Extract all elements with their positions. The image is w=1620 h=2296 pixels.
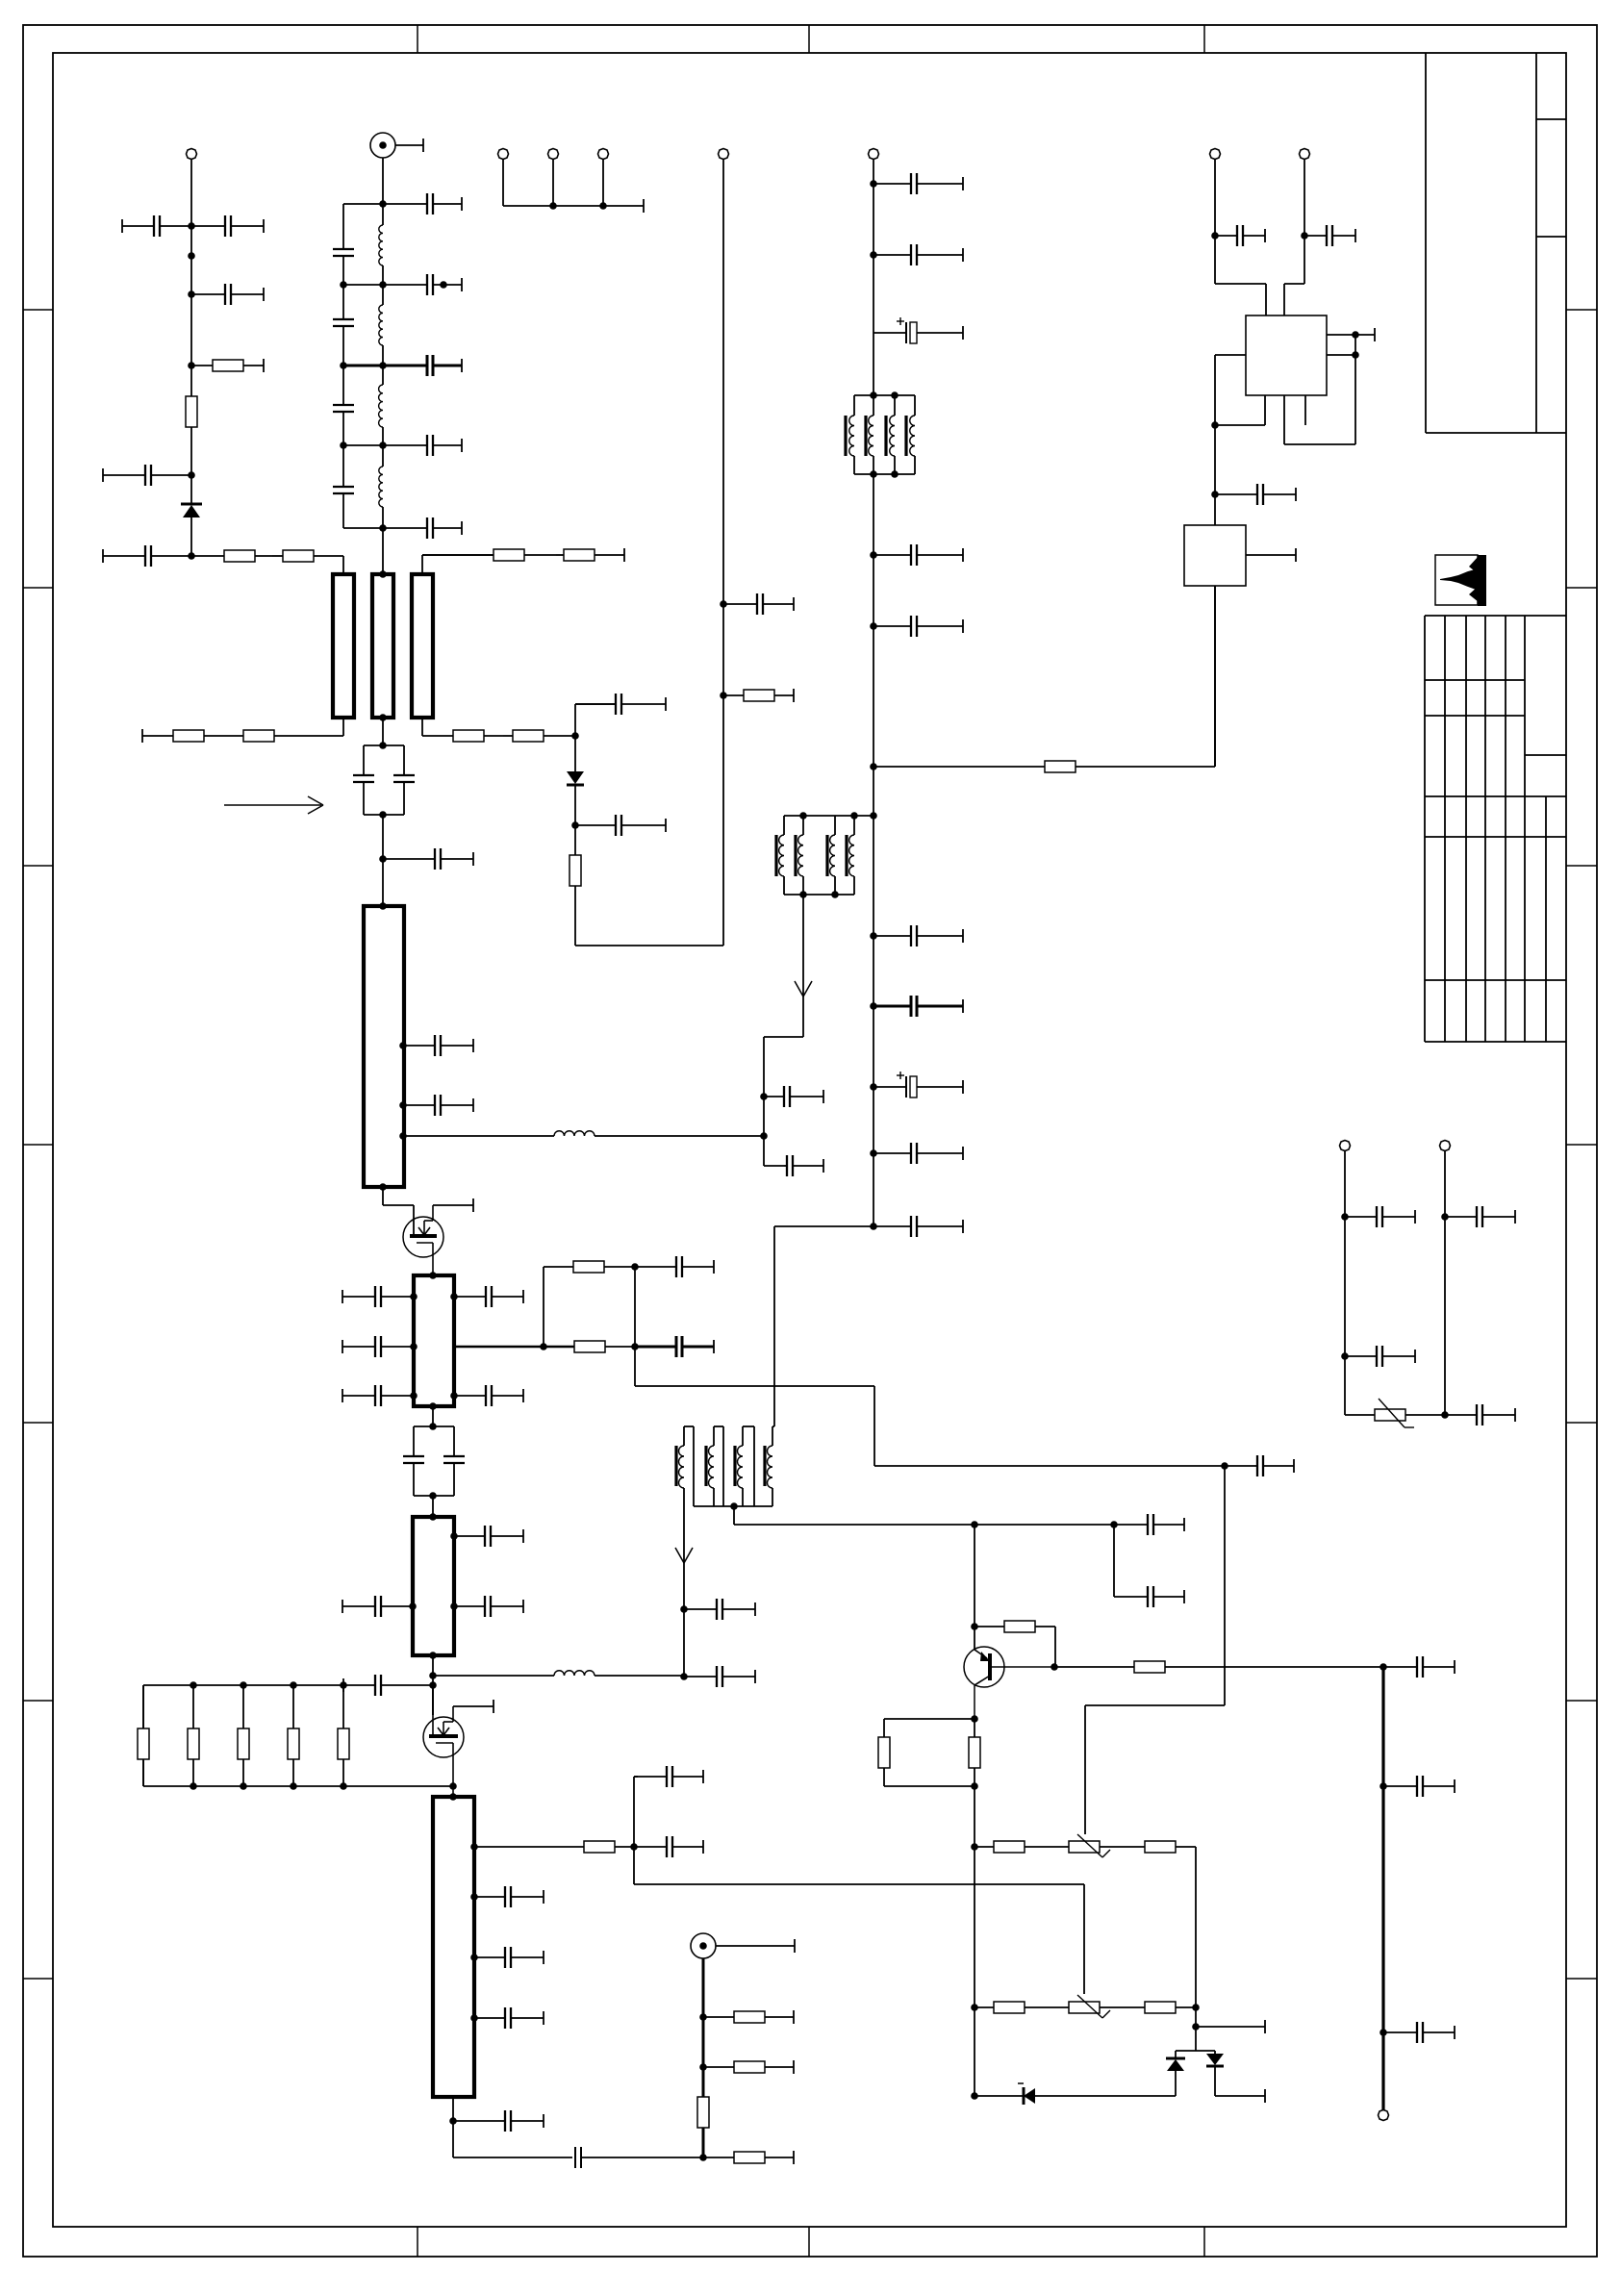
node A1b (188, 252, 195, 260)
wire (774, 1225, 873, 1227)
node E1 (720, 600, 727, 608)
capacitor C33 (454, 1385, 523, 1406)
capacitor C55 (1345, 1206, 1415, 1227)
wire (421, 555, 423, 574)
resistor R22 (703, 2010, 794, 2024)
node F2bot (379, 714, 387, 721)
wire (452, 2097, 454, 2157)
RF connector J1 (370, 133, 423, 158)
wire (633, 1847, 635, 1884)
capacitor C2 (191, 215, 264, 237)
resistor R23 (703, 2060, 794, 2074)
node X1 (1380, 1663, 1387, 1671)
arrow (signal direction) (224, 796, 323, 814)
wire (1195, 1847, 1197, 2007)
node H2 (760, 1132, 768, 1140)
terminal P5 (598, 149, 609, 160)
wire (343, 203, 383, 205)
terminal P2 (719, 149, 729, 160)
node A4 (188, 471, 195, 479)
node V2 (1110, 1521, 1118, 1528)
capacitor C34 (635, 1336, 714, 1357)
wire (1214, 159, 1216, 284)
capacitor C52 (1383, 1656, 1455, 1678)
wire (634, 1267, 636, 1347)
wire (635, 1347, 1225, 1466)
node I5 (399, 1132, 407, 1140)
capacitor C36 (1225, 1455, 1294, 1476)
transformer T3 (676, 1426, 774, 1510)
resistor R29 (969, 1719, 980, 2096)
node S4 (449, 2117, 457, 2125)
node A3 (188, 362, 195, 369)
capacitor C32 (454, 1286, 523, 1307)
node A2 (188, 290, 195, 298)
node B3 (340, 362, 347, 369)
wire (190, 159, 192, 226)
node V6 (971, 1782, 978, 1790)
diode D3 (975, 2083, 1176, 2105)
wire: resistor bank bottom rail (143, 1759, 453, 1786)
node K11 (429, 1402, 437, 1410)
capacitor C31 (342, 1385, 414, 1406)
resonator F6 (413, 1517, 454, 1655)
capacitor C38 (342, 1596, 413, 1617)
node G5 (870, 763, 877, 770)
inductor L2b (379, 366, 383, 445)
wire (1215, 2095, 1265, 2097)
node U2n (680, 1673, 688, 1680)
wire (453, 1705, 494, 1707)
node R21a (470, 1843, 478, 1851)
capacitor C3 (191, 284, 264, 305)
resistor R3 (191, 550, 272, 562)
node S2 (470, 1954, 478, 1961)
resonator F5 (414, 1275, 454, 1406)
node G3 (870, 551, 877, 559)
capacitor C42 (634, 1766, 703, 1787)
node V1 (971, 1521, 978, 1528)
node A5 (188, 552, 195, 560)
inductor L2 (379, 285, 383, 366)
capacitor C8 (333, 319, 354, 326)
terminal P9 (1440, 1141, 1451, 1151)
capacitor C4 (103, 465, 191, 486)
transformer T1 (776, 812, 873, 898)
capacitor C25 (784, 1155, 823, 1176)
node V3 (971, 1623, 978, 1630)
wire (543, 1267, 544, 1347)
capacitor C27 (403, 1035, 473, 1056)
MOSFET Q2 (423, 1685, 464, 1797)
node V5 (971, 1715, 978, 1723)
resistor R13 (873, 761, 1215, 772)
capacitor C1 (122, 215, 191, 237)
node M4 (450, 1602, 458, 1610)
wire (574, 704, 576, 736)
resistor R15 (573, 1261, 635, 1273)
resistor R10 (503, 730, 575, 742)
capacitor C50 (1114, 1514, 1184, 1535)
node K4 (410, 1392, 418, 1400)
resonator F2 (372, 574, 393, 718)
varistor RV3 (1345, 1399, 1445, 1427)
inductor L3 (403, 1131, 764, 1136)
capacitor C29 (342, 1286, 414, 1307)
capacitor C24 (764, 1086, 823, 1107)
inductor L1 (379, 204, 383, 285)
node G1 (870, 180, 877, 188)
wire (873, 159, 874, 395)
capacitor C41 (634, 1836, 703, 1857)
resistor R30 (975, 1841, 1069, 1853)
node M1 (429, 1513, 437, 1521)
wire (575, 945, 723, 946)
resistor R26 (975, 1621, 1055, 1632)
capacitor C53 (1383, 1776, 1455, 1797)
capacitor C48 (684, 1599, 755, 1620)
node I1 (379, 855, 387, 863)
capacitor C37 (454, 1526, 523, 1547)
node K9 (631, 1263, 639, 1271)
diode D4 (1166, 2051, 1185, 2096)
inductor L4 (433, 1671, 684, 1676)
resistor R12 (723, 689, 794, 702)
node Z2 (1301, 232, 1308, 240)
resistor R11 (570, 825, 581, 946)
wire (382, 815, 384, 906)
capacitor C11 (575, 694, 666, 715)
node N6 (240, 1782, 247, 1790)
node Y2n (1441, 1213, 1449, 1221)
capacitor C6 (383, 193, 462, 214)
node K3 (410, 1343, 418, 1350)
wire (342, 718, 344, 736)
node G8 (870, 1002, 877, 1010)
wire (1354, 335, 1356, 444)
terminal P11 (1300, 149, 1310, 160)
node R21b (630, 1843, 638, 1851)
capacitor C23 (873, 1216, 963, 1237)
wire (343, 284, 383, 286)
node T3n (699, 2154, 707, 2161)
wire (764, 895, 812, 1166)
terminal P4 (548, 149, 559, 160)
node D2b (571, 821, 579, 829)
node V4 (1050, 1663, 1058, 1671)
node N1 (190, 1681, 197, 1689)
capacitor C49 (684, 1666, 755, 1687)
capacitor C13 (723, 593, 794, 615)
node Y3n (1341, 1352, 1349, 1360)
diode D2 (567, 736, 584, 825)
node K8 (631, 1343, 639, 1350)
node M5 (429, 1652, 437, 1659)
capacitor C10 (383, 355, 462, 376)
resistor R18 (238, 1685, 249, 1786)
resistor R25 (703, 2151, 794, 2164)
capacitor C21 electrolytic (873, 1072, 963, 1098)
node K1 (429, 1272, 437, 1279)
node S1 (470, 1893, 478, 1901)
wire (1196, 2026, 1265, 2028)
wire: ladder left branch (343, 204, 383, 528)
capacitor C30 (342, 1336, 414, 1357)
node N5 (190, 1782, 197, 1790)
node X3 (1380, 2029, 1387, 2036)
wire (552, 159, 554, 206)
node G11 (870, 1223, 877, 1230)
wire: U1 pin (1327, 334, 1375, 336)
wire (190, 226, 192, 294)
node F2top (379, 570, 387, 578)
capacitor C15 (873, 244, 963, 265)
wire (873, 474, 874, 1226)
transformer T2 (846, 391, 915, 478)
capacitor C16 electrolytic (873, 317, 963, 343)
wire (421, 718, 423, 736)
MOSFET Q1 (403, 1205, 443, 1275)
resistor R31 (1145, 1841, 1196, 1853)
capacitor C61 (1215, 484, 1296, 505)
node B4 (340, 442, 347, 449)
terminal P8 (1340, 1141, 1351, 1151)
resistor R21 (474, 1841, 634, 1853)
resistor R7 (223, 730, 343, 742)
capacitor C28 (403, 1095, 473, 1116)
wire (1176, 2050, 1215, 2052)
node S3 (470, 2014, 478, 2022)
terminal P1 (187, 149, 197, 160)
wire (1224, 1466, 1226, 1705)
capacitor C14 (873, 173, 963, 194)
wire (382, 1187, 384, 1205)
wire (733, 1506, 735, 1525)
wire (190, 294, 192, 366)
node B2 (340, 281, 347, 289)
node K2 (410, 1293, 418, 1300)
resistor R9 (422, 730, 503, 742)
IC U1 (1246, 315, 1327, 395)
capacitor C26 (383, 848, 473, 870)
node M6 (429, 1672, 437, 1679)
potentiometer RV1 (1069, 1834, 1145, 1857)
node U1n (680, 1605, 688, 1613)
node N8 (340, 1782, 347, 1790)
resistor R32 (975, 2002, 1069, 2013)
node N4 (340, 1681, 347, 1689)
resonator F3 (412, 574, 433, 718)
resistor R27 (1054, 1661, 1383, 1673)
node Y1n (1341, 1213, 1349, 1221)
resistor R24 (697, 2097, 709, 2128)
terminal P6 (869, 149, 879, 160)
resonator F1 (333, 574, 354, 718)
wire (764, 1165, 784, 1167)
capacitor C39 (454, 1596, 523, 1617)
node G4 (870, 622, 877, 630)
wire (1304, 159, 1305, 284)
capacitor C54 (1383, 2022, 1455, 2043)
capacitor C60 (1304, 225, 1355, 246)
capacitor C46 (453, 2110, 544, 2132)
resistor R14 (574, 1341, 635, 1352)
terminal P3 (498, 149, 509, 160)
wire (1195, 2007, 1197, 2051)
capacitor C5 (103, 545, 191, 567)
capacitor C22 (873, 1143, 963, 1164)
node Z1 (1211, 232, 1219, 240)
resistor R1 (191, 359, 264, 372)
node Q1t (449, 1793, 457, 1801)
terminal P10 (1210, 149, 1221, 160)
node Y4n (1441, 1411, 1449, 1419)
node I3 (399, 1042, 407, 1049)
BJT Q3 (964, 1647, 1054, 1719)
trimmer capacitor CT2 (403, 1423, 465, 1500)
capacitor C59 (1215, 225, 1265, 246)
wire (1215, 424, 1265, 426)
node K6 (450, 1392, 458, 1400)
node W1 (971, 1843, 978, 1851)
wire (382, 158, 384, 204)
node W4 (1192, 2023, 1200, 2031)
capacitor C8a (383, 274, 462, 295)
capacitor C17 (873, 544, 963, 566)
wire (633, 1777, 635, 1847)
wire (1214, 586, 1216, 767)
resistor R4 (272, 550, 343, 562)
node N3 (290, 1681, 297, 1689)
wire (432, 1406, 434, 1426)
resonator F4 (364, 906, 404, 1187)
wire (675, 1488, 693, 1677)
node E2 (720, 692, 727, 699)
capacitor C51 (1114, 1586, 1184, 1607)
capacitor C10a (383, 435, 462, 456)
node B5 (379, 524, 387, 532)
resistor R17 (188, 1685, 199, 1786)
capacitor C10b (383, 517, 462, 539)
wire (382, 718, 384, 745)
node N2 (240, 1681, 247, 1689)
wire (454, 1346, 574, 1349)
crystal Y1 (1184, 525, 1246, 586)
node W2 (971, 2004, 978, 2011)
diode D5 (1206, 2051, 1224, 2096)
capacitor C20 (873, 996, 963, 1017)
wire (1214, 586, 1216, 767)
node K7 (540, 1343, 547, 1350)
node W3 (1192, 2004, 1200, 2011)
node I2 (379, 902, 387, 910)
resistor R8 (142, 729, 223, 743)
wire (502, 159, 504, 206)
wire (1444, 1150, 1446, 1415)
node N7 (290, 1782, 297, 1790)
wire (1215, 354, 1246, 356)
capacitor C7 (333, 249, 354, 256)
resistor R6 (556, 548, 624, 562)
node K5 (450, 1293, 458, 1300)
node D2a (571, 732, 579, 740)
wire (1381, 1667, 1384, 2110)
resistor R33 (1145, 2002, 1196, 2013)
wire: resistor bank rail (143, 1685, 343, 1728)
capacitor C58 (1445, 1404, 1515, 1426)
capacitor C57 (1345, 1346, 1415, 1367)
wire: Y1 pin (1246, 554, 1296, 556)
capacitor C44 (474, 1947, 544, 1968)
resonator F7 (433, 1797, 474, 2097)
node G6 (870, 812, 877, 820)
node I6 (379, 1183, 387, 1191)
node K10 (1221, 1462, 1228, 1470)
wire (343, 444, 383, 446)
RF connector J2 (691, 1933, 795, 1958)
capacitor C45 (474, 2007, 544, 2029)
resistor R19 (288, 1685, 299, 1786)
node W5 (971, 2092, 978, 2100)
node M2 (450, 1532, 458, 1540)
node G7 (870, 932, 877, 940)
resistor R28 (878, 1719, 975, 1786)
capacitor C12 (575, 815, 666, 836)
wire (1054, 1627, 1056, 1667)
node M3 (409, 1602, 417, 1610)
wire (342, 556, 344, 574)
node G2 (870, 251, 877, 259)
wire (1113, 1525, 1115, 1597)
node I4 (399, 1101, 407, 1109)
diode D1 (181, 475, 202, 556)
wire (382, 528, 384, 574)
node X2 (1380, 1782, 1387, 1790)
node G9 (870, 1083, 877, 1091)
node T1n (699, 2013, 707, 2021)
wire (432, 1685, 434, 1715)
capacitor C47 (453, 2147, 703, 2168)
wire (343, 365, 383, 367)
wire: U1 pin stub (1304, 395, 1306, 425)
wire: U1 pin (1327, 354, 1355, 356)
inductor L2c (379, 445, 383, 528)
resistor R16 (138, 1685, 149, 1786)
wire (433, 1204, 473, 1206)
potentiometer RV2 (1069, 1995, 1145, 2018)
node Z3 (1211, 421, 1219, 429)
node Z4 (1211, 491, 1219, 498)
node M7 (429, 1681, 437, 1689)
wire (1344, 1150, 1346, 1415)
node B1 (379, 200, 387, 208)
capacitor C43 (474, 1886, 544, 1907)
capacitor C18 (873, 616, 963, 637)
resistor R20 (338, 1685, 349, 1786)
capacitor C9 (333, 405, 354, 412)
wire (602, 159, 604, 206)
capacitor C35 (635, 1256, 714, 1277)
capacitor C19 (873, 925, 963, 946)
wire (432, 1496, 434, 1517)
node G10 (870, 1149, 877, 1157)
capacitor C9b (333, 487, 354, 493)
resistor R2 (186, 366, 197, 475)
node H1 (760, 1093, 768, 1100)
wire (974, 1525, 975, 1650)
terminal P7 (1379, 2110, 1389, 2121)
wire (432, 1655, 434, 1715)
